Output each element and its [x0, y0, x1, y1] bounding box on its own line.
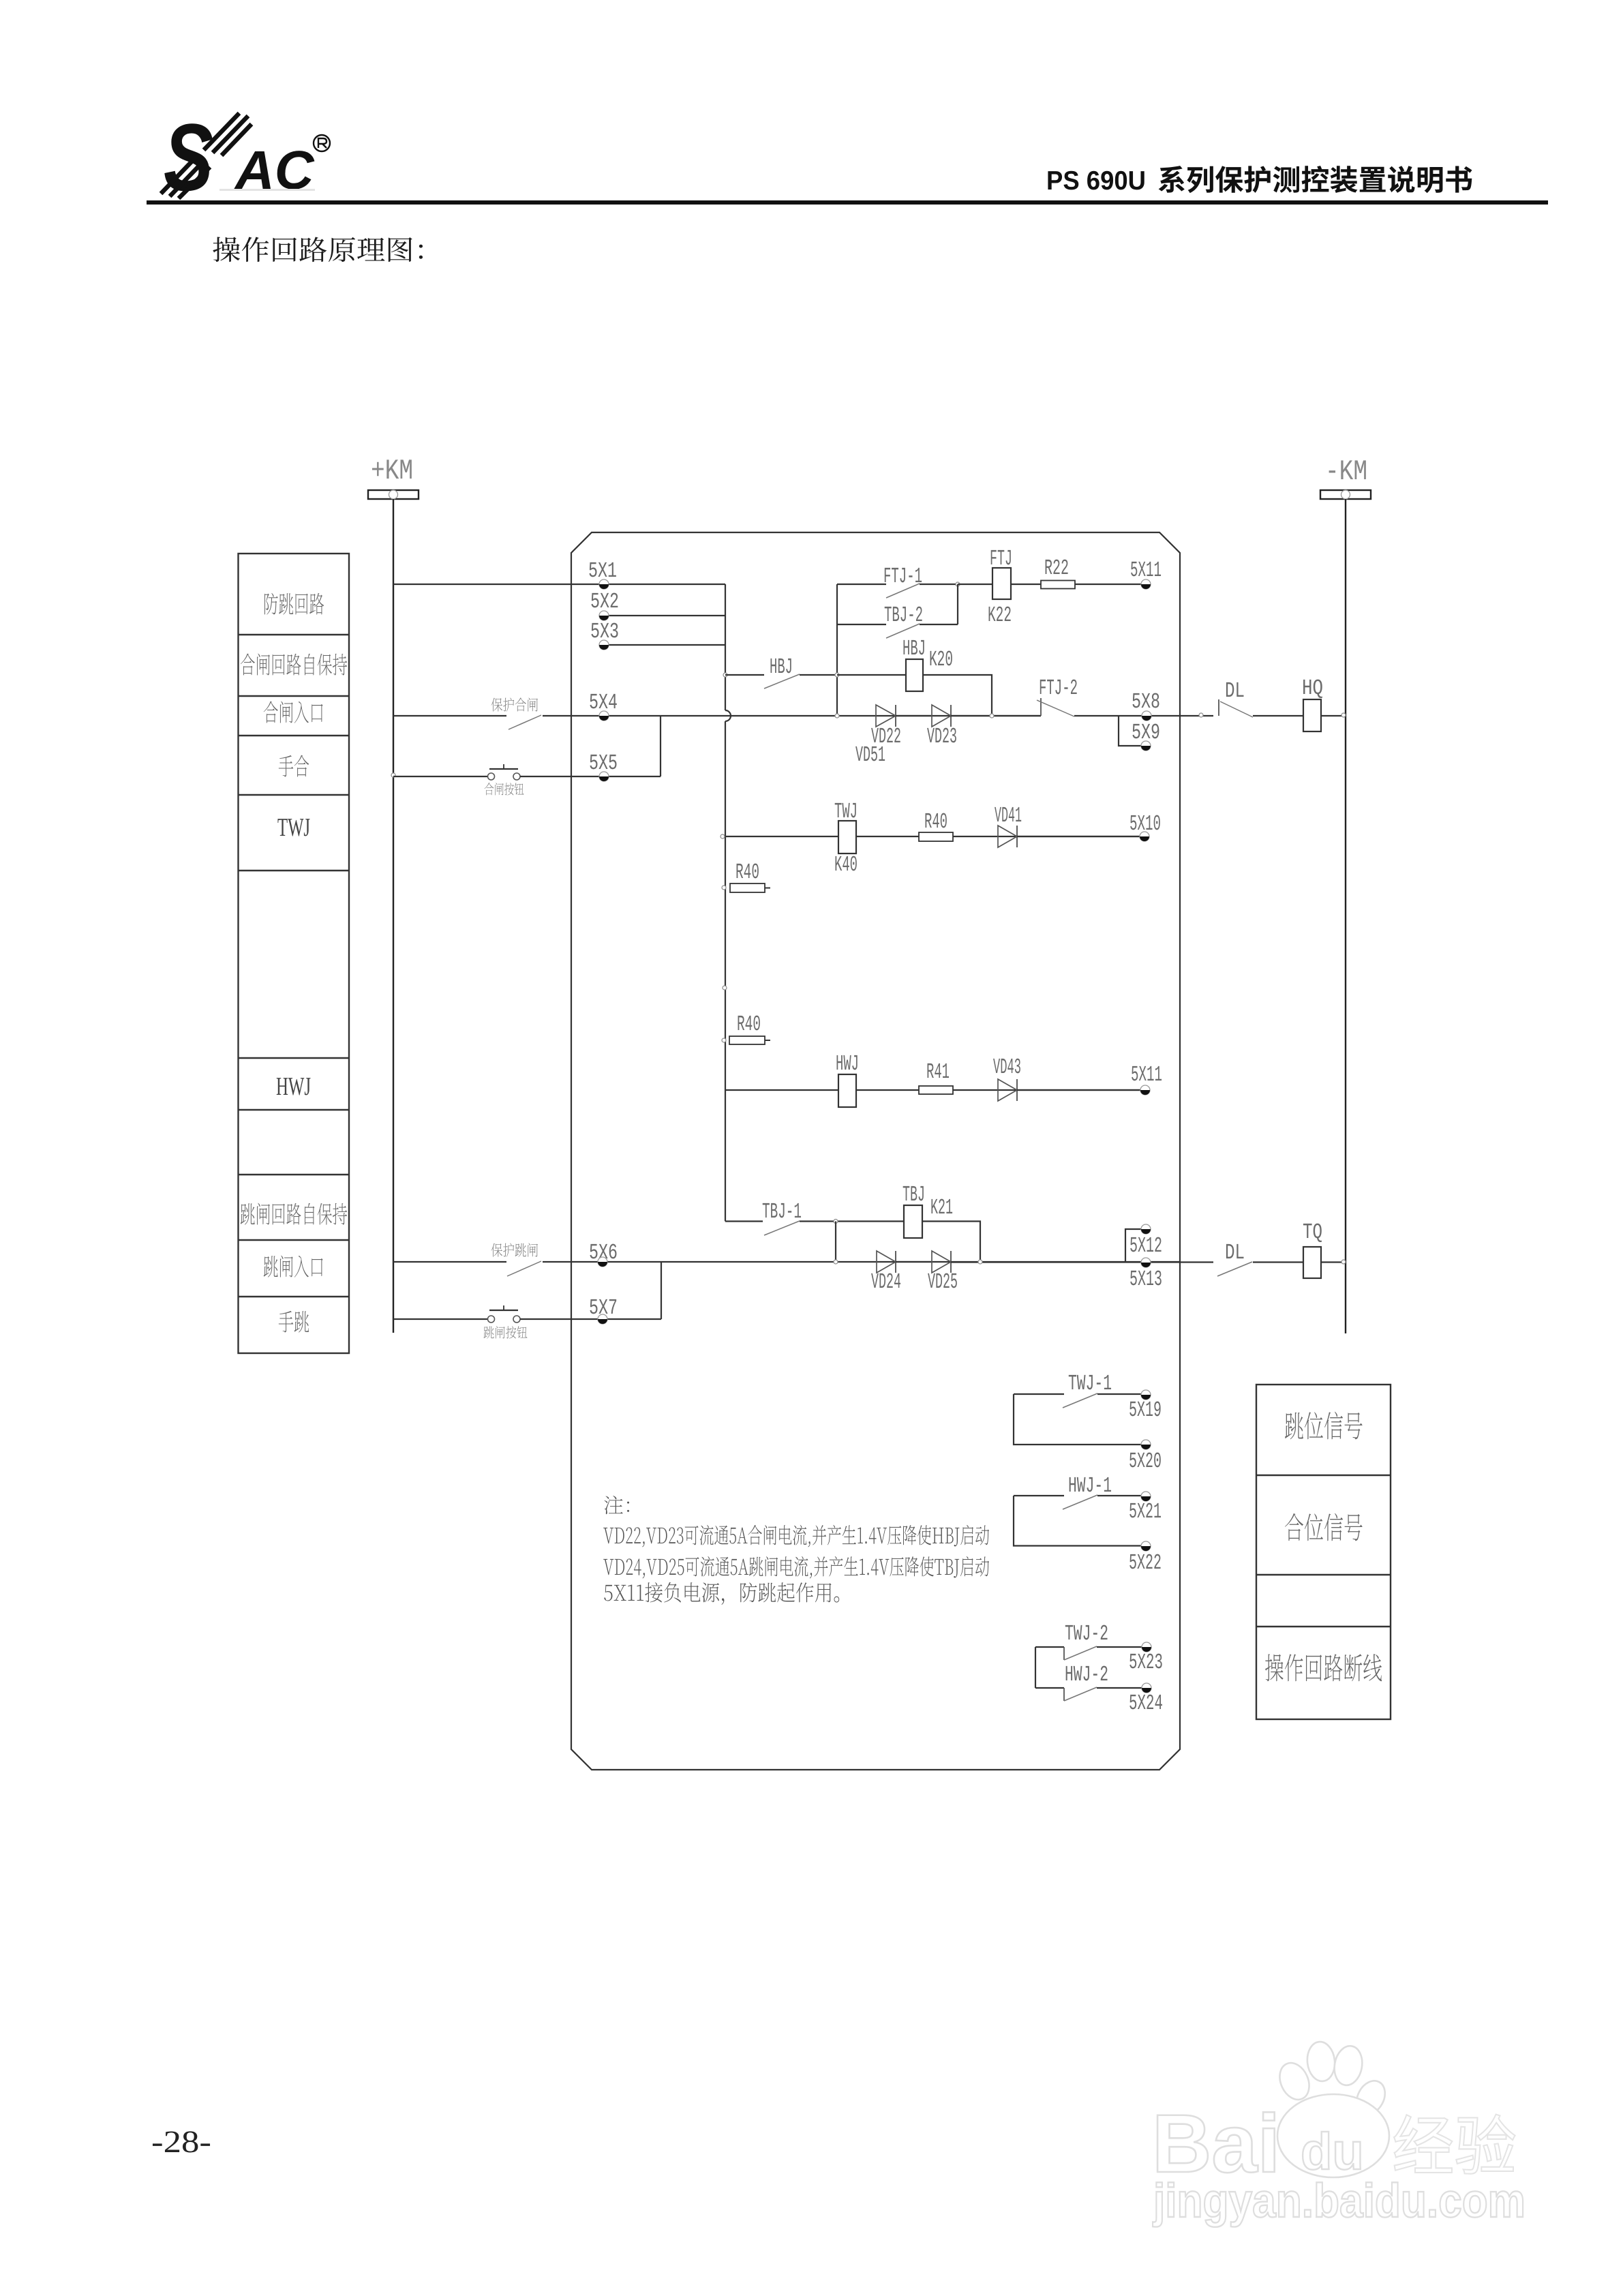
wire left rail: [393, 499, 394, 1333]
junction rail 5X5: [391, 773, 395, 777]
contact protection-trip: [393, 1261, 1180, 1276]
svg-text:VD23: VD23: [927, 724, 957, 749]
wire trip line to 5X7 vertical: [661, 1262, 662, 1319]
svg-text:HWJ-2: HWJ-2: [1065, 1662, 1108, 1687]
junction TWJ line: [721, 834, 725, 839]
resistor R22: [1041, 556, 1075, 589]
svg-text:HWJ: HWJ: [276, 1072, 311, 1101]
wire HWJ coil to R41: [856, 1089, 919, 1091]
svg-text:HWJ-1: HWJ-1: [1068, 1473, 1112, 1498]
svg-text:+KM: +KM: [371, 455, 413, 487]
svg-text:5X21: 5X21: [1129, 1499, 1162, 1524]
relay coil HWJ: [836, 1051, 859, 1107]
wire R22 to 5X11: [1075, 584, 1142, 585]
svg-text:5X11: 5X11: [1131, 1062, 1162, 1087]
resistor R40: [919, 809, 953, 841]
contact label 保护合闸: [491, 697, 538, 711]
wire FTJ-1 line to TBJ-2 line vertical: [957, 584, 958, 624]
wire VD23 to FTJ-2: [951, 715, 1041, 716]
diode VD25: [928, 1251, 958, 1295]
relay coil TWJ K40: [834, 799, 858, 877]
watermark 经验: [1394, 2115, 1515, 2174]
wire VD41 to 5X10: [1017, 836, 1141, 837]
resistor R40 stub upper: [722, 860, 770, 892]
note line 3: [604, 1582, 839, 1605]
svg-text:HBJ: HBJ: [902, 636, 926, 661]
signal table label 操作回路断线: [1265, 1654, 1382, 1681]
left legend table: [239, 554, 350, 1353]
svg-text:K22: K22: [988, 603, 1012, 628]
wire HWJ line left: [725, 1089, 838, 1091]
breaker contact DL (close circuit): [1219, 678, 1303, 717]
contact TWJ-2: [1035, 1621, 1142, 1660]
svg-text:DL: DL: [1225, 1240, 1245, 1265]
svg-text:5X24: 5X24: [1129, 1691, 1163, 1716]
wire TBJ-1 junction drop: [835, 1222, 836, 1263]
wire 5X1 line: [393, 584, 725, 585]
wire to HBJ coil: [837, 674, 906, 676]
heading 操作回路原理图: [213, 237, 423, 262]
svg-text:HQ: HQ: [1302, 676, 1323, 701]
svg-text:R40: R40: [924, 809, 947, 834]
wire antipump loop left vertical: [836, 584, 838, 716]
wire R40 to VD41: [953, 836, 1141, 837]
svg-text:R40: R40: [737, 1012, 761, 1037]
junction HBJ line: [835, 673, 839, 677]
relay coil HQ (closing coil): [1302, 676, 1323, 731]
contact HWJ-2: [1035, 1662, 1142, 1701]
diode VD43: [993, 1055, 1021, 1101]
wire 5X12 stub: [1125, 1229, 1141, 1262]
junction TBJ-1 line: [834, 1220, 838, 1224]
svg-text:TBJ-2: TBJ-2: [884, 603, 923, 628]
svg-text:TQ: TQ: [1303, 1220, 1322, 1245]
wire TWJ-2/HWJ-2 left vertical: [1035, 1647, 1036, 1688]
contact TWJ-1: [1014, 1371, 1141, 1408]
contact FTJ-2 (NC): [1037, 676, 1180, 716]
svg-text:5X23: 5X23: [1129, 1650, 1163, 1675]
junction HBJ coil drop: [990, 714, 994, 718]
svg-text:VD24: VD24: [871, 1269, 901, 1295]
table row label 跳闸回路自保持: [241, 1203, 347, 1225]
svg-text:du: du: [1301, 2123, 1364, 2181]
wire VD25 to box edge: [951, 1261, 1180, 1263]
junction outside box: [1199, 713, 1203, 717]
wire HBJ coil right: [923, 675, 992, 716]
wire antipump vertical with crossover hop: [725, 584, 731, 1222]
svg-text:TWJ: TWJ: [277, 813, 310, 842]
table row label 手合: [279, 755, 309, 777]
power bus +KM: [368, 490, 419, 499]
junction TQ right rail: [1341, 1260, 1346, 1264]
wire TWJ coil to R40: [856, 836, 919, 837]
svg-text:VD43: VD43: [993, 1055, 1021, 1080]
contact TBJ-2: [837, 603, 958, 638]
wire 5X9 drop: [1119, 716, 1142, 746]
relay coil FTJ K22: [988, 546, 1012, 628]
breaker contact DL (trip circuit): [1217, 1240, 1303, 1276]
svg-text:5X20: 5X20: [1129, 1449, 1162, 1474]
svg-text:PS 690U: PS 690U: [1046, 166, 1146, 196]
junction FTJ-1 to coil: [956, 582, 960, 586]
note heading 注: [604, 1496, 629, 1514]
resistor R41: [919, 1059, 953, 1094]
device outline box: [571, 532, 1180, 1770]
diode VD41: [995, 803, 1022, 847]
contact protection-close: [393, 715, 1041, 729]
button label 合闸按钮: [485, 783, 524, 795]
junction at right rail: [1341, 713, 1346, 717]
svg-text:TBJ-1: TBJ-1: [762, 1199, 802, 1224]
svg-text:VD25: VD25: [928, 1269, 958, 1295]
right legend table: [1256, 1385, 1391, 1719]
junction marker mid vertical: [723, 986, 727, 990]
header rule: [147, 200, 1548, 205]
wire 5X2 line: [604, 615, 725, 616]
contact FTJ-1: [837, 564, 958, 598]
svg-text:-KM: -KM: [1325, 455, 1367, 488]
table row label 合闸入口: [264, 701, 323, 723]
relay coil TBJ K21: [902, 1182, 953, 1238]
svg-text:K40: K40: [834, 852, 858, 877]
wire TWJ line left: [725, 836, 838, 837]
svg-text:VD41: VD41: [995, 803, 1022, 828]
svg-text:jingyan.baidu.com: jingyan.baidu.com: [1152, 2174, 1526, 2227]
wire box edge to DL: [1180, 715, 1213, 716]
wire VD22-VD23: [896, 715, 932, 716]
table row label 合闸回路自保持: [241, 654, 347, 676]
contact TBJ-1: [725, 1199, 904, 1235]
table row label 手跳: [279, 1311, 309, 1333]
table row label 跳闸入口: [264, 1256, 323, 1278]
svg-text:FTJ-2: FTJ-2: [1039, 676, 1078, 701]
svg-text:VD51: VD51: [855, 742, 885, 768]
diode VD23: [927, 705, 957, 749]
wire HWJ-1 return: [1014, 1496, 1141, 1546]
signal table label 跳位信号: [1285, 1412, 1363, 1440]
wire HQ to right rail: [1321, 715, 1346, 716]
svg-text:HWJ: HWJ: [836, 1051, 859, 1076]
svg-text:-28-: -28-: [151, 2124, 211, 2159]
wire FTJ-1 to FTJ coil: [958, 584, 992, 585]
contact label 保护跳闸: [491, 1243, 538, 1256]
wire TWJ-1 return: [1014, 1394, 1141, 1445]
wire 5X3 line: [604, 644, 725, 646]
pushbutton trip (manual trip): [393, 1305, 661, 1323]
svg-text:5X19: 5X19: [1129, 1398, 1162, 1423]
relay coil TQ (trip coil): [1303, 1220, 1322, 1278]
power bus -KM: [1320, 490, 1371, 499]
note line 2: [603, 1556, 989, 1579]
svg-text:AC: AC: [234, 140, 315, 200]
contact HBJ self-hold: [723, 654, 837, 689]
pushbutton close (manual close): [393, 764, 661, 780]
watermark baidu jingyan: [1152, 2040, 1526, 2227]
resistor R40 stub lower: [722, 1012, 770, 1044]
table row label 防跳回路: [264, 593, 324, 615]
svg-text:5X13: 5X13: [1129, 1267, 1162, 1292]
junction TBJ coil drop: [978, 1260, 982, 1264]
relay coil HBJ K20: [902, 636, 953, 691]
wire right rail: [1345, 499, 1346, 1333]
svg-text:5X12: 5X12: [1129, 1233, 1162, 1258]
SAC company logo: [161, 104, 330, 211]
wire VD24-VD25: [896, 1261, 932, 1263]
wire TBJ coil right drop: [922, 1222, 980, 1263]
button label 跳闸按钮: [484, 1326, 528, 1338]
note line 1: [603, 1525, 989, 1547]
junction trip line TBJ-1 drop: [834, 1260, 838, 1264]
svg-text:R41: R41: [926, 1059, 950, 1085]
svg-text:TWJ-2: TWJ-2: [1065, 1621, 1108, 1646]
svg-text:TBJ: TBJ: [902, 1182, 925, 1207]
wire close line to 5X5 vertical: [660, 716, 661, 776]
svg-text:K21: K21: [930, 1195, 953, 1220]
svg-text:R22: R22: [1044, 556, 1069, 581]
svg-text:5X22: 5X22: [1129, 1550, 1162, 1575]
svg-text:DL: DL: [1225, 678, 1245, 704]
wire R41 to VD43: [953, 1089, 1142, 1091]
wire coil to R22: [1011, 584, 1041, 585]
diode VD22: [871, 705, 901, 749]
signal table label 合位信号: [1285, 1513, 1363, 1541]
wire box edge to DL trip: [1180, 1261, 1213, 1263]
junction close line / HBJ loop: [835, 714, 839, 718]
svg-text:K20: K20: [929, 647, 953, 672]
title text: [1159, 166, 1472, 193]
svg-text:R40: R40: [735, 860, 759, 885]
wire TQ to right rail: [1321, 1261, 1346, 1263]
svg-text:TWJ-1: TWJ-1: [1068, 1371, 1112, 1396]
svg-text:HBJ: HBJ: [770, 654, 793, 680]
contact HWJ-1: [1014, 1473, 1141, 1509]
wire VD43 to 5X11: [1017, 1089, 1142, 1091]
diode VD24: [871, 1251, 901, 1295]
